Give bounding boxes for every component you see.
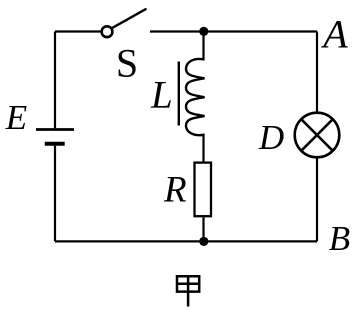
svg-text:S: S xyxy=(116,40,138,85)
wire left lower xyxy=(54,146,56,242)
svg-text:E: E xyxy=(5,98,27,137)
svg-text:A: A xyxy=(320,12,348,57)
wire middle below R xyxy=(202,217,204,241)
wire middle between L and R xyxy=(202,134,204,162)
wire top-right segment xyxy=(150,30,317,32)
svg-text:D: D xyxy=(258,118,284,157)
switch S xyxy=(102,9,146,37)
wire right upper xyxy=(316,32,318,113)
resistor R xyxy=(195,163,212,217)
svg-text:B: B xyxy=(329,219,350,258)
wire top-left segment xyxy=(55,30,102,32)
wire left upper xyxy=(54,32,56,129)
svg-text:R: R xyxy=(163,170,187,211)
inductor core bar xyxy=(178,62,180,126)
inductor L xyxy=(186,59,205,135)
node junction bottom xyxy=(199,237,208,246)
wire right lower xyxy=(316,158,318,241)
wire middle upper xyxy=(202,32,204,61)
lamp D xyxy=(295,113,340,158)
caption 甲 xyxy=(177,275,199,307)
node junction top xyxy=(199,27,208,36)
svg-text:L: L xyxy=(150,73,173,116)
wire bottom xyxy=(55,240,317,242)
battery E xyxy=(36,130,74,144)
